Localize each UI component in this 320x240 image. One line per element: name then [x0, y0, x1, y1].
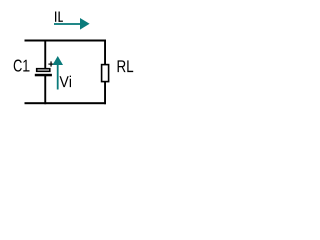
- resistor RL: [102, 65, 109, 82]
- voltage arrow Vi (teal, pointing up): [53, 56, 64, 90]
- label IL: [55, 12, 63, 22]
- label Vi: [60, 76, 72, 87]
- wire: top horizontal (node between C1 top and RL top): [25, 40, 107, 42]
- label C1: [14, 60, 30, 72]
- capacitor C1 (polarized): top plate hollow, bottom plate solid, plus mark: [35, 61, 54, 76]
- wire: left vertical upper segment (top wire to C1 top plate): [44, 40, 46, 69]
- wire: left vertical lower segment (C1 bottom plate to bottom wire): [44, 76, 46, 104]
- label RL: [118, 60, 134, 72]
- wire: right vertical (through RL): [104, 40, 106, 105]
- wire: bottom horizontal (node between C1 bottom and RL bottom): [25, 102, 107, 104]
- current arrow IL (teal, pointing right): [54, 18, 90, 30]
